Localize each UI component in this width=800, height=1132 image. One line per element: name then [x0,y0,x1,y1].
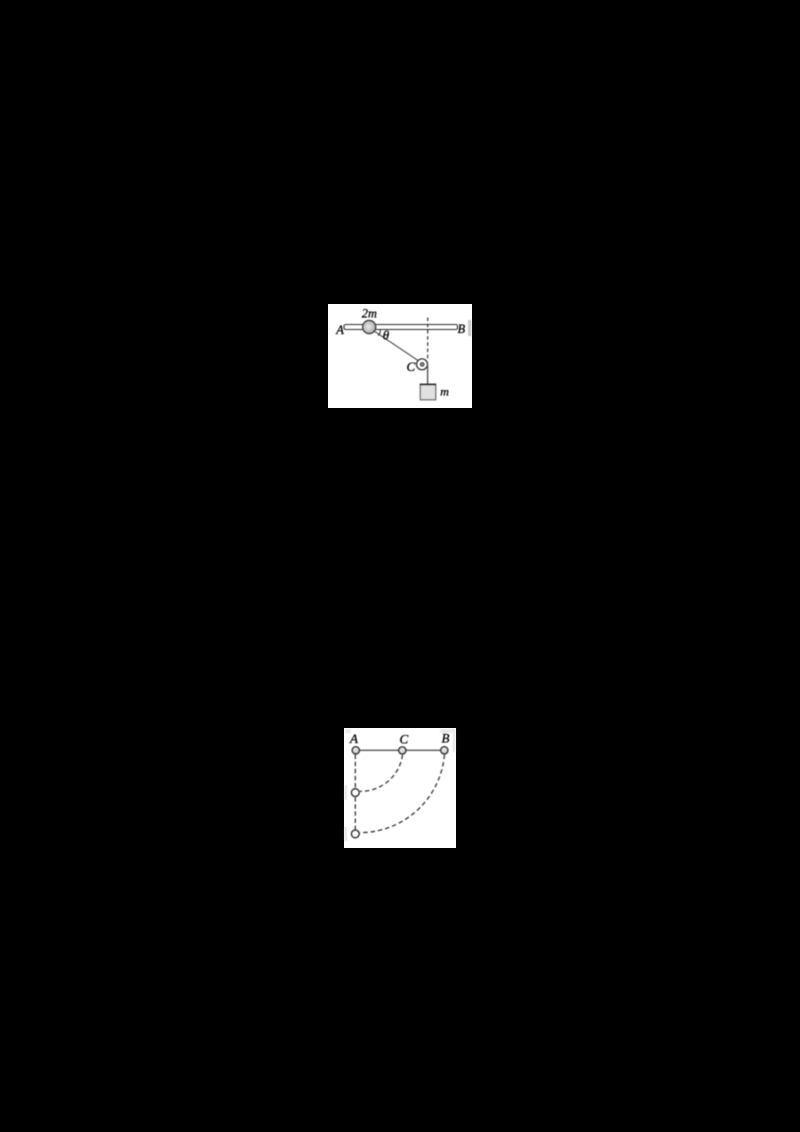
svg-text:2m: 2m [362,306,377,320]
svg-text:A: A [349,731,358,746]
svg-text:C: C [400,732,409,747]
svg-text:m: m [440,385,449,399]
svg-text:B: B [442,731,450,746]
svg-text:C: C [407,359,416,374]
svg-text:θ: θ [383,327,390,342]
svg-text:B: B [458,322,466,336]
svg-text:A: A [335,323,344,337]
